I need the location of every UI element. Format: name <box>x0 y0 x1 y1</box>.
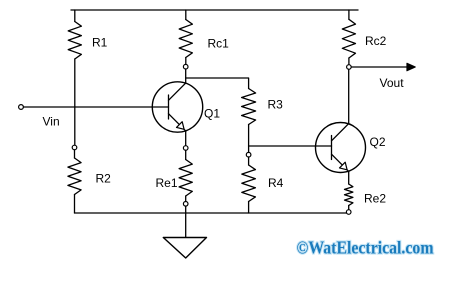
svg-text:Q2: Q2 <box>370 135 386 149</box>
wire collector node to R3 top <box>186 78 249 89</box>
resistor R1 <box>68 22 81 60</box>
transistor Q1 <box>152 82 202 132</box>
node R2 top terminal <box>72 145 77 150</box>
label watermark WatElectrical <box>297 238 434 258</box>
svg-text:R4: R4 <box>268 176 284 190</box>
wire Q2 emitter to Re2 <box>348 171 350 184</box>
wire junction to Q2 base <box>249 145 332 147</box>
svg-text:Vout: Vout <box>380 76 405 90</box>
wire Rc1 branch top lead <box>185 10 187 20</box>
resistor R3 <box>242 89 256 125</box>
node Vin input terminal <box>19 105 24 110</box>
svg-text:R2: R2 <box>96 172 112 186</box>
node Rc1 bottom terminal <box>183 64 188 69</box>
wire Vout arrow <box>351 63 415 71</box>
wire Rc2 bottom lead <box>348 58 350 65</box>
resistor Rc2 <box>342 19 355 58</box>
wire R2 top lead <box>74 150 76 158</box>
node Re1 bottom terminal <box>183 202 188 207</box>
svg-text:R1: R1 <box>92 36 108 50</box>
svg-text:Q1: Q1 <box>204 107 220 121</box>
ground <box>163 213 206 258</box>
svg-text:Vin: Vin <box>43 115 60 129</box>
resistor Rc1 <box>179 20 192 58</box>
wire R1 branch top lead <box>74 10 76 22</box>
wire Vin to Q1 base <box>23 106 168 108</box>
transistor Q2 <box>316 123 366 173</box>
wire Re1 top lead <box>185 150 187 159</box>
wire Re1 bottom lead <box>185 196 187 202</box>
resistor Re1 <box>179 160 192 197</box>
svg-text:R3: R3 <box>268 98 284 112</box>
node Q1 emitter / Re1 top terminal <box>183 146 188 151</box>
svg-text:©WatElectrical.com: ©WatElectrical.com <box>297 238 434 258</box>
resistor R4 <box>242 165 256 202</box>
resistor Re2 <box>345 184 353 206</box>
wire collector node down to Q1 collector <box>185 69 187 83</box>
svg-text:Rc1: Rc1 <box>208 37 230 51</box>
wire R4 bottom lead to ground rail <box>248 202 250 214</box>
wire Rc1 bottom lead <box>185 58 187 65</box>
wire Re1 terminal to ground rail <box>185 206 187 213</box>
wire Vout node down to Q2 collector <box>348 69 350 123</box>
node R3/R4 junction terminal <box>246 152 251 157</box>
wire bottom ground rail <box>75 212 347 214</box>
svg-text:Re1: Re1 <box>156 176 178 190</box>
svg-text:Rc2: Rc2 <box>365 34 387 48</box>
wire Re2 bottom lead <box>348 206 350 210</box>
wire R1 bottom to R2 top terminal (crosses Vin wire) <box>74 59 76 145</box>
node Vout terminal <box>347 65 352 70</box>
wire top supply rail <box>71 9 358 11</box>
wire R4 top lead <box>248 157 250 165</box>
resistor R2 <box>68 158 81 195</box>
wire R3 bottom to R3/R4 junction <box>248 125 250 153</box>
wire R2 bottom lead to ground rail <box>74 195 76 214</box>
svg-text:Re2: Re2 <box>364 192 386 206</box>
node Re2 bottom terminal <box>346 210 351 215</box>
wire Q1 emitter down to terminal <box>185 131 187 146</box>
wire Rc2 branch top lead <box>348 10 350 19</box>
